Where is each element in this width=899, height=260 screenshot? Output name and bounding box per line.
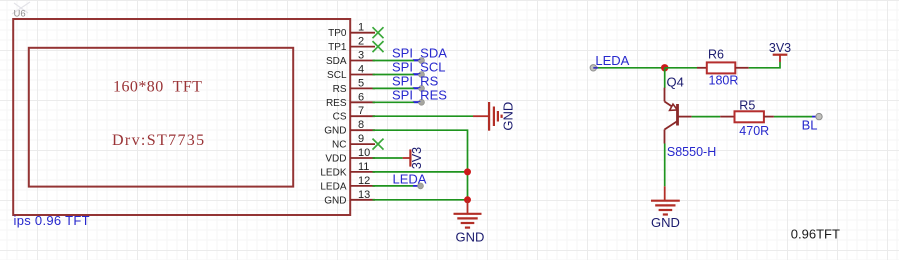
- net port stub BL: [812, 116, 819, 118]
- wire pin7 to GND flag: [373, 115, 474, 117]
- power flag 3V3 sideways (VDD): [403, 147, 424, 169]
- wire R5 to BL net port: [774, 116, 812, 118]
- wire LEDA to junction: [598, 67, 665, 69]
- svg-text:SPI_SCL: SPI_SCL: [392, 60, 445, 75]
- net port stub SPI_RES: [414, 101, 422, 103]
- net port stub SPI_RS: [414, 87, 422, 89]
- svg-text:BL: BL: [802, 117, 818, 132]
- net port stub LEDA (right): [593, 67, 598, 69]
- pin 1 TP0: [328, 22, 375, 40]
- junction pin11/ground rail: [464, 168, 471, 175]
- power flag 3V3 (top right): [769, 41, 791, 62]
- svg-text:TP0: TP0: [328, 28, 347, 39]
- wire junction to R6: [665, 67, 697, 69]
- svg-text:180R: 180R: [709, 74, 739, 88]
- svg-text:11: 11: [358, 161, 369, 173]
- svg-text:LEDA: LEDA: [393, 171, 427, 186]
- svg-text:3V3: 3V3: [769, 41, 791, 55]
- svg-text:GND: GND: [501, 102, 516, 131]
- svg-text:RS: RS: [333, 84, 347, 95]
- svg-text:470R: 470R: [739, 124, 769, 138]
- svg-text:4: 4: [358, 64, 364, 76]
- net port dot SPI_SCL: [419, 72, 425, 78]
- svg-text:Q4: Q4: [667, 75, 684, 90]
- svg-text:GND: GND: [651, 215, 680, 230]
- faint artifact X near U6: [12, 2, 30, 14]
- pin 13 GND: [324, 189, 375, 207]
- wire pin4 to net port: [373, 74, 415, 76]
- wire Q4 collector to GND: [664, 144, 666, 187]
- pin 8 GND: [324, 119, 375, 137]
- wire pin3 to net port: [373, 60, 415, 62]
- wire pin10 to 3V3 flag: [373, 157, 403, 159]
- net port dot LEDA: [418, 183, 424, 189]
- resistor R5: [720, 111, 774, 122]
- svg-text:0.96TFT: 0.96TFT: [791, 226, 840, 241]
- svg-text:RES: RES: [326, 98, 347, 109]
- wire pin11 to ground rail: [373, 171, 468, 173]
- svg-text:VDD: VDD: [325, 154, 346, 165]
- svg-text:U6: U6: [14, 9, 26, 20]
- pin 2 TP1: [328, 36, 375, 54]
- svg-text:SPI_RS: SPI_RS: [392, 73, 439, 88]
- ground flag Q4: [651, 186, 680, 230]
- net port stub SPI_SCL: [414, 74, 422, 76]
- svg-text:10: 10: [358, 147, 370, 159]
- svg-text:LEDA: LEDA: [595, 53, 629, 68]
- svg-text:TP1: TP1: [328, 42, 347, 53]
- svg-text:1: 1: [358, 22, 364, 34]
- svg-text:5: 5: [358, 77, 364, 89]
- net port stub LEDA: [413, 185, 421, 187]
- svg-text:160*80 TFT: 160*80 TFT: [113, 79, 202, 96]
- svg-text:R5: R5: [739, 98, 755, 112]
- wire pin6 to net port: [373, 101, 415, 103]
- svg-text:LEDK: LEDK: [320, 167, 346, 178]
- pin 9 NC: [332, 133, 375, 151]
- pin 11 LEDK: [320, 161, 375, 179]
- svg-text:SPI_RES: SPI_RES: [392, 87, 447, 102]
- svg-text:GND: GND: [324, 126, 346, 137]
- net port dot SPI_RES: [419, 99, 425, 105]
- svg-text:LEDA: LEDA: [320, 181, 346, 192]
- pin 12 LEDA: [320, 175, 375, 193]
- junction pin13/ground rail: [464, 196, 471, 203]
- pin 7 CS: [333, 105, 375, 123]
- wire pin13 to ground rail: [373, 199, 468, 201]
- net port dot SPI_RS: [419, 86, 425, 92]
- svg-text:3: 3: [358, 50, 364, 62]
- no-connect X pin 2: [373, 41, 384, 52]
- pin 5 RS: [333, 77, 375, 95]
- pin 4 SCL: [327, 64, 375, 82]
- svg-text:SPI_SDA: SPI_SDA: [392, 46, 447, 61]
- svg-text:SDA: SDA: [326, 56, 347, 67]
- svg-text:6: 6: [358, 91, 364, 103]
- svg-text:9: 9: [358, 133, 364, 145]
- ground flag main (TFT): [454, 200, 485, 245]
- pin 10 VDD: [325, 147, 375, 165]
- net port dot BL: [816, 113, 822, 119]
- svg-text:ips 0.96 TFT: ips 0.96 TFT: [14, 213, 90, 228]
- U6 inner display rectangle: [29, 48, 293, 187]
- wire Q4 base to R5: [692, 116, 721, 118]
- wire pin8 to ground rail: [373, 130, 468, 200]
- svg-text:S8550-H: S8550-H: [667, 145, 716, 159]
- svg-text:2: 2: [358, 36, 364, 48]
- svg-text:8: 8: [358, 119, 364, 131]
- junction LEDA/R6/Q4: [661, 64, 668, 71]
- ground flag sideways (CS): [473, 102, 516, 131]
- pin 6 RES: [326, 91, 375, 109]
- wire R6 to 3V3: [749, 62, 780, 68]
- svg-text:13: 13: [358, 189, 370, 201]
- net port stub SPI_SDA: [414, 60, 422, 62]
- svg-text:12: 12: [358, 175, 370, 187]
- svg-text:NC: NC: [332, 140, 346, 151]
- net port dot SPI_SDA: [419, 58, 425, 64]
- svg-text:7: 7: [358, 105, 364, 117]
- svg-text:GND: GND: [456, 229, 485, 244]
- pin 3 SDA: [326, 50, 375, 68]
- wire pin5 to net port: [373, 87, 415, 89]
- wire junction to Q4 emitter: [664, 68, 666, 88]
- svg-text:Drv:ST7735: Drv:ST7735: [112, 132, 206, 149]
- transistor Q4 (PNP S8550): [665, 88, 692, 144]
- component U6 symbol outline: [13, 19, 350, 215]
- svg-text:CS: CS: [333, 112, 347, 123]
- svg-text:3V3: 3V3: [410, 147, 424, 169]
- svg-text:GND: GND: [324, 195, 346, 206]
- wire pin12 to net port: [373, 185, 414, 187]
- svg-text:R6: R6: [708, 48, 724, 62]
- no-connect X pin 9: [373, 139, 384, 150]
- svg-text:SCL: SCL: [327, 70, 347, 81]
- no-connect X pin 1: [373, 27, 384, 38]
- resistor R6: [697, 62, 749, 73]
- net port dot LEDA (right): [590, 65, 596, 71]
